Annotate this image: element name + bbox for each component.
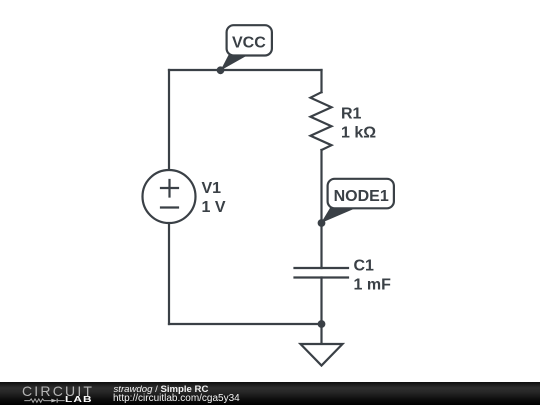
svg-text:VCC: VCC [232,35,266,52]
svg-text:R1: R1 [341,106,362,123]
svg-text:1 mF: 1 mF [354,277,392,294]
svg-text:1 kΩ: 1 kΩ [341,125,376,142]
svg-text:1 V: 1 V [202,199,226,216]
svg-text:V1: V1 [202,180,222,197]
svg-text:NODE1: NODE1 [334,188,389,205]
svg-text:C1: C1 [354,257,375,274]
